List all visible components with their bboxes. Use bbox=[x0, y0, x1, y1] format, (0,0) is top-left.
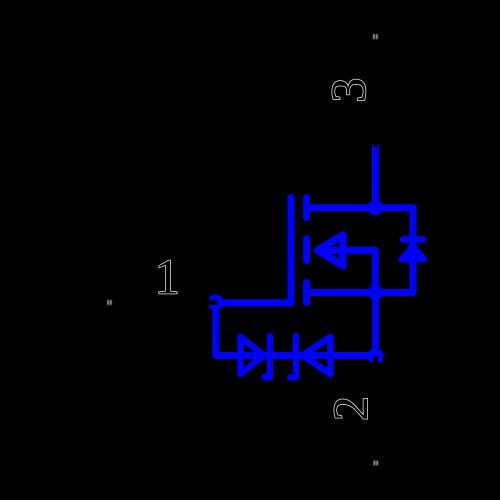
pin 3 tiny name label bbox=[373, 34, 378, 39]
diode D3 triangle bbox=[402, 246, 425, 259]
transistor Q1 body diode arrow bbox=[318, 235, 344, 266]
diode D1 cathode bar bbox=[264, 336, 270, 377]
transistor Q1 channel dash middle bbox=[303, 239, 310, 261]
diode D1 triangle bbox=[241, 337, 264, 374]
pin 2 tiny name label bbox=[374, 461, 378, 466]
wire pin2 up to source junction bbox=[372, 293, 379, 357]
pin 1 terminal ring bbox=[211, 297, 221, 309]
transistor Q1 channel dash bottom bbox=[303, 283, 310, 303]
wire body diode to source bbox=[318, 250, 375, 292]
wire pin1 down to diode rail bbox=[216, 303, 376, 356]
wire drain rail bbox=[310, 208, 413, 293]
pin 3 terminal notch bbox=[373, 143, 377, 147]
transistor Q1 channel dash top bbox=[303, 198, 310, 218]
wire pin3 drain lead bbox=[372, 144, 379, 208]
diode D2 triangle bbox=[302, 337, 330, 374]
junction dot drain bbox=[368, 200, 383, 215]
pin 2 terminal ring bbox=[370, 350, 382, 360]
svg-text:2: 2 bbox=[322, 396, 378, 421]
junction dot source bbox=[368, 285, 383, 300]
pin 1 terminal gap slot bbox=[207, 300, 218, 305]
diode D2 cathode bar bbox=[290, 336, 296, 377]
pin 2 terminal gap slot bbox=[373, 356, 378, 365]
pin 1 tiny name label bbox=[107, 300, 111, 305]
svg-text:1: 1 bbox=[155, 249, 180, 305]
transistor Q1 gate bar bbox=[216, 198, 292, 303]
svg-text:3: 3 bbox=[320, 78, 376, 103]
wire source rail bbox=[310, 289, 413, 296]
diode D3 cathode bar bbox=[403, 236, 423, 243]
